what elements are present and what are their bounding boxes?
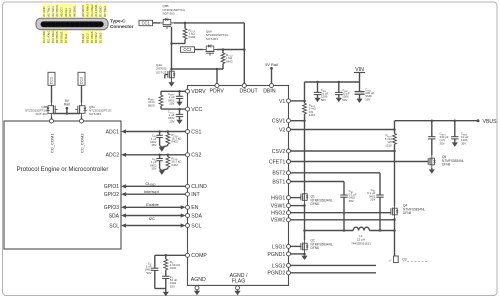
svg-text:VDRV: VDRV — [191, 89, 206, 95]
svg-text:CS2: CS2 — [191, 153, 201, 159]
svg-text:0402: 0402 — [189, 35, 196, 39]
svg-text:VCC: VCC — [191, 107, 202, 113]
svg-text:B7 Dn2: B7 Dn2 — [64, 33, 68, 43]
svg-text:V2: V2 — [279, 127, 285, 133]
svg-text:0402: 0402 — [170, 266, 177, 270]
svg-text:V1: V1 — [279, 99, 285, 105]
svg-text:A11 RXp2: A11 RXp2 — [90, 4, 94, 17]
svg-text:SDA: SDA — [109, 213, 120, 219]
svg-text:CC_COM2: CC_COM2 — [79, 133, 84, 153]
svg-text:CC2: CC2 — [183, 47, 192, 52]
svg-text:CLIND: CLIND — [191, 184, 207, 190]
svg-text:I2C: I2C — [149, 216, 155, 221]
svg-text:B10 RXn1: B10 RXn1 — [51, 30, 55, 43]
svg-text:HSG2: HSG2 — [271, 211, 285, 217]
svg-text:GPIO2: GPIO2 — [104, 192, 120, 198]
svg-text:25V: 25V — [169, 119, 174, 123]
svg-text:B12 GND: B12 GND — [42, 31, 46, 43]
svg-text:BST1: BST1 — [272, 179, 285, 185]
svg-text:DFN8: DFN8 — [403, 211, 412, 215]
svg-text:CFET1: CFET1 — [269, 159, 286, 165]
svg-text:DBOUT: DBOUT — [240, 88, 259, 94]
svg-text:B11 RXp1: B11 RXp1 — [46, 30, 50, 43]
svg-text:HSG1: HSG1 — [271, 196, 285, 202]
svg-text:DBIN: DBIN — [263, 88, 276, 94]
svg-text:A1 GND: A1 GND — [42, 7, 46, 17]
svg-text:Protocol Engine or Microcontro: Protocol Engine or Microcontroller — [17, 166, 109, 173]
svg-text:B5 CC2: B5 CC2 — [85, 33, 89, 43]
svg-text:PDRV: PDRV — [210, 88, 225, 94]
svg-text:SOT-23: SOT-23 — [156, 70, 167, 74]
svg-text:VSW1: VSW1 — [271, 204, 286, 210]
svg-text:A9 VBUS: A9 VBUS — [81, 5, 85, 17]
svg-text:35V: 35V — [440, 141, 445, 145]
svg-text:SOT-363: SOT-363 — [35, 112, 47, 116]
svg-text:B1 GND: B1 GND — [98, 7, 102, 17]
svg-text:LSG2: LSG2 — [272, 263, 285, 269]
svg-text:VSW2: VSW2 — [271, 218, 286, 224]
svg-text:PGND2: PGND2 — [267, 271, 285, 277]
svg-text:0402: 0402 — [171, 140, 178, 144]
svg-text:COMP: COMP — [191, 253, 207, 259]
svg-text:CSV2: CSV2 — [272, 149, 286, 155]
svg-text:CLIND: CLIND — [145, 181, 155, 187]
svg-text:25V: 25V — [169, 102, 174, 106]
svg-text:50V: 50V — [321, 98, 326, 102]
svg-text:A2 TXp1: A2 TXp1 — [46, 6, 50, 17]
svg-text:EN: EN — [191, 205, 198, 211]
svg-text:CC1: CC1 — [50, 77, 54, 84]
svg-text:25V: 25V — [370, 198, 375, 202]
svg-text:DFN8: DFN8 — [311, 246, 320, 250]
svg-text:A4 VBUS: A4 VBUS — [55, 5, 59, 17]
svg-text:DFN8: DFN8 — [442, 163, 451, 167]
svg-text:A3 TXn1: A3 TXn1 — [51, 6, 55, 17]
svg-text:A8 SBU1: A8 SBU1 — [72, 5, 76, 17]
svg-text:35V: 35V — [461, 141, 466, 145]
svg-text:BST2: BST2 — [272, 171, 285, 177]
svg-text:SOT-363: SOT-363 — [89, 112, 101, 116]
svg-text:Interrupt: Interrupt — [144, 189, 160, 194]
svg-text:A7 Dn1: A7 Dn1 — [68, 7, 72, 17]
svg-text:SDA: SDA — [191, 213, 202, 219]
svg-text:SCL: SCL — [109, 223, 119, 229]
svg-text:CC2: CC2 — [80, 77, 84, 84]
svg-text:GPIO3: GPIO3 — [104, 205, 120, 211]
svg-text:A5 CC1: A5 CC1 — [59, 7, 63, 17]
svg-text:1210: 1210 — [309, 113, 316, 117]
svg-text:B1 GND: B1 GND — [98, 33, 102, 43]
svg-text:50V: 50V — [342, 98, 347, 102]
svg-text:DFN8: DFN8 — [311, 202, 320, 206]
svg-text:B8 SBU2: B8 SBU2 — [59, 31, 63, 43]
svg-text:50V: 50V — [365, 97, 370, 101]
svg-text:1210: 1210 — [385, 143, 392, 147]
svg-text:B9 VBUS: B9 VBUS — [55, 31, 59, 43]
svg-text:A10 RXn2: A10 RXn2 — [85, 4, 89, 17]
svg-text:SCL: SCL — [191, 223, 201, 229]
svg-text:A12 GND: A12 GND — [94, 5, 98, 17]
svg-text:5V Rail: 5V Rail — [265, 62, 278, 67]
svg-text:Rail: Rail — [64, 103, 70, 107]
svg-text:Connector: Connector — [110, 24, 134, 29]
svg-text:Q3: Q3 — [402, 257, 406, 261]
svg-text:0603: 0603 — [148, 103, 155, 107]
svg-text:CC_COM1: CC_COM1 — [49, 133, 54, 153]
svg-text:LSG1: LSG1 — [272, 244, 285, 250]
svg-text:ADC2: ADC2 — [106, 153, 120, 159]
svg-text:B3 TXn2: B3 TXn2 — [94, 32, 98, 43]
svg-text:25V: 25V — [170, 284, 175, 288]
svg-text:Type-C: Type-C — [110, 19, 126, 24]
svg-text:0402: 0402 — [171, 163, 178, 167]
svg-text:SOT-363: SOT-363 — [163, 12, 175, 16]
svg-text:B6 Dp2: B6 Dp2 — [81, 33, 85, 43]
svg-text:SOT-363: SOT-363 — [206, 37, 218, 41]
svg-text:INT: INT — [191, 192, 200, 198]
svg-text:25V: 25V — [151, 143, 156, 147]
svg-text:B4 VBUS: B4 VBUS — [90, 31, 94, 43]
svg-text:AGND: AGND — [191, 277, 206, 283]
svg-text:µF: µF — [389, 259, 392, 263]
svg-text:FLAG: FLAG — [232, 279, 246, 285]
svg-text:CC1: CC1 — [142, 21, 151, 26]
svg-text:B2 TXp2: B2 TXp2 — [103, 6, 107, 17]
svg-text:ADC1: ADC1 — [106, 129, 120, 135]
svg-text:50V: 50V — [146, 271, 151, 275]
svg-text:PGND1: PGND1 — [267, 252, 285, 258]
svg-text:CSV1: CSV1 — [272, 119, 286, 125]
svg-text:GPIO1: GPIO1 — [104, 184, 120, 190]
svg-text:25V: 25V — [151, 167, 156, 171]
svg-text:0402: 0402 — [226, 59, 233, 63]
svg-text:A6 Dp1: A6 Dp1 — [64, 7, 68, 17]
svg-text:25V: 25V — [349, 199, 354, 203]
svg-text:Enable: Enable — [146, 202, 159, 207]
svg-text:VBUS: VBUS — [483, 119, 498, 125]
svg-text:744035551151: 744035551151 — [351, 241, 371, 245]
svg-text:CS1: CS1 — [191, 129, 201, 135]
